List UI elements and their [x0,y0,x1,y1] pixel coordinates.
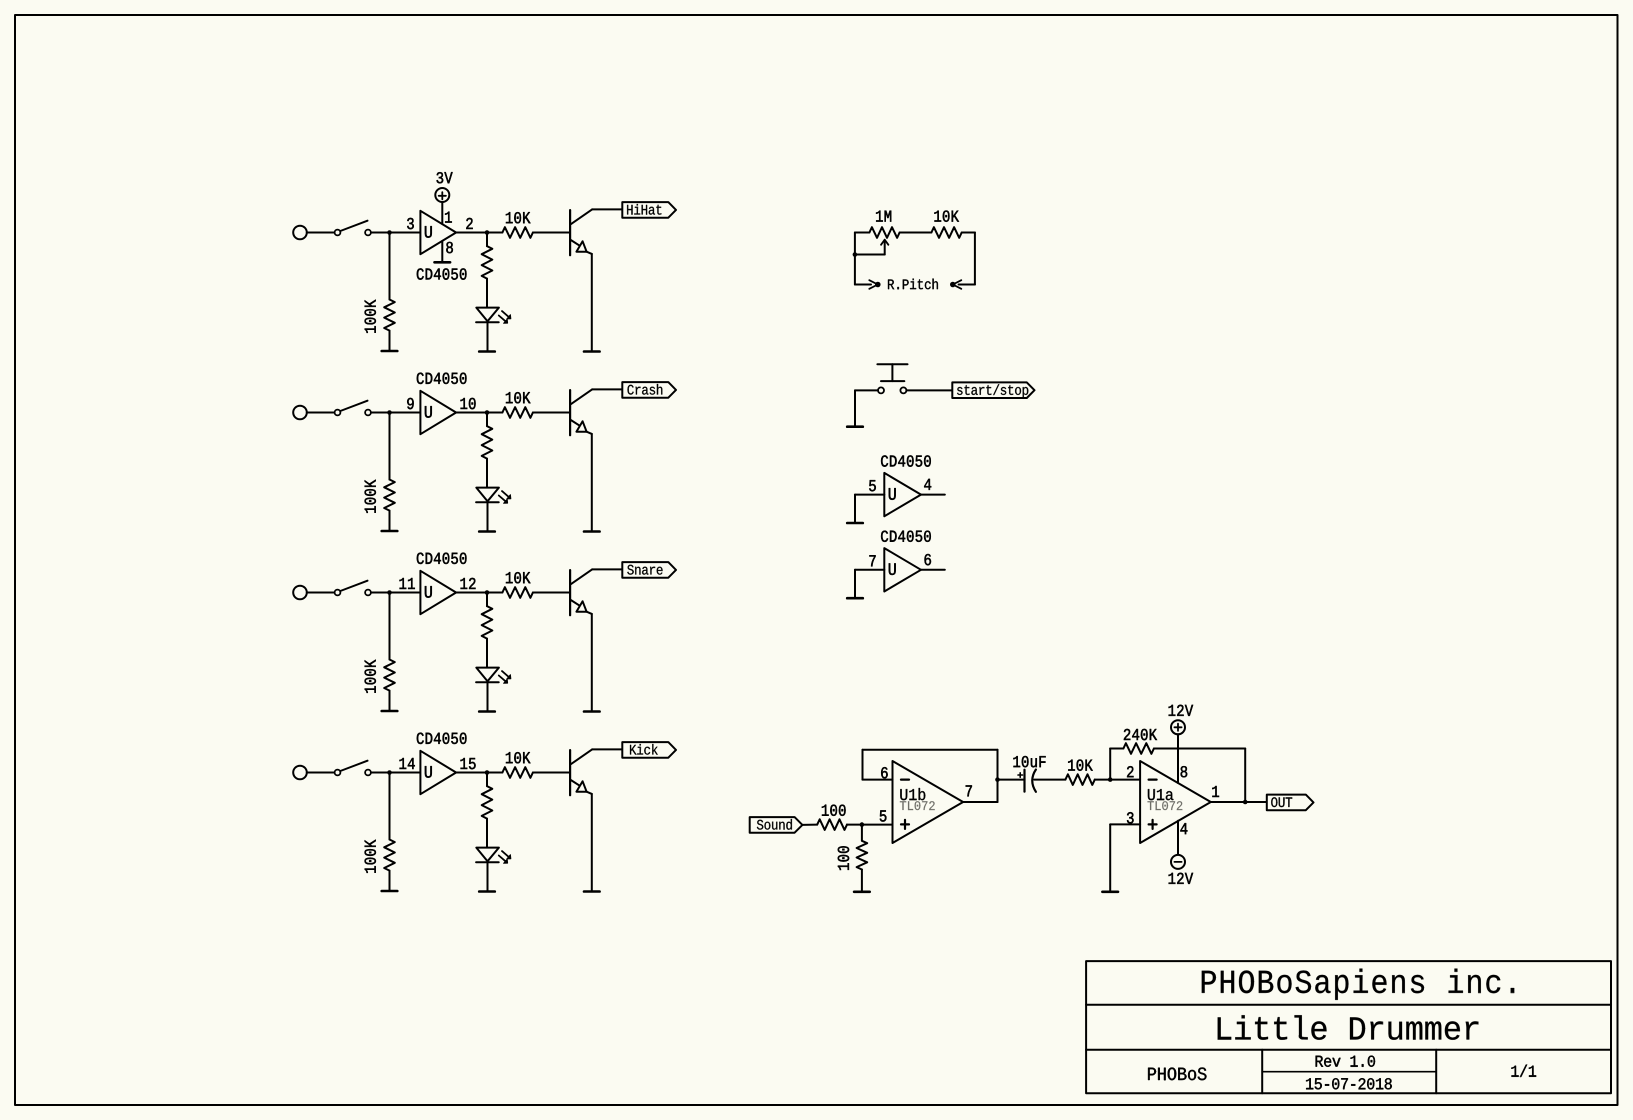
power supply +12V [1169,705,1194,783]
op-amp U1a TL072 [1140,761,1211,843]
junction node (HiHat input) [387,230,392,235]
wire output (spare buffer B) [921,569,945,571]
ground (pin 8) [435,241,453,262]
wire left leg (R.Pitch) [854,233,856,285]
ground (Crash pulldown) [382,530,398,533]
junction node (Kick buffer output) [485,770,490,775]
wire U1a output [1211,801,1267,803]
pin 8 (U1a V+) [1181,766,1188,777]
potentiometer 1M (R.Pitch) [855,211,900,255]
ground (LED, Kick) [479,890,495,893]
ground (emitter, Kick) [584,890,600,893]
wire input (spare buffer A) [855,495,884,523]
buffer U CD4050 (Snare) [417,553,467,615]
title text revision [1316,1056,1375,1067]
resistor 100 (to ground) [838,825,867,892]
pin 5 (U1b +) [880,810,887,821]
input connector (Crash trigger pad) [293,406,334,420]
resistor (LED series, Snare) [482,593,493,668]
resistor 100 (series, Sound) [817,805,892,830]
wire emitter to ground (Snare) [591,614,593,712]
junction node (Crash buffer output) [485,410,490,415]
ground (LED, HiHat) [479,350,495,353]
capacitor 10uF (polarized) [1013,756,1065,792]
wire emitter to ground (HiHat) [591,254,593,352]
LED (HiHat) [476,308,511,352]
power supply 3V (pin 1) [435,172,452,224]
wire input (spare buffer B) [855,570,884,598]
net flag HiHat [622,202,676,218]
junction node (Crash input) [387,410,392,415]
pin 3 (buffer input, HiHat) [407,218,414,229]
junction node (Snare input) [387,590,392,595]
wire buffer output (Kick) [456,772,502,774]
resistor (LED series, Crash) [482,413,493,488]
wire emitter to ground (Crash) [591,434,593,532]
pin 10 (buffer output, Crash) [461,398,476,409]
wire buffer output (Snare) [456,592,502,594]
pin 15 (buffer output, Kick) [461,758,476,769]
op-amp U1b TL072 [893,761,964,843]
wire pot to 10K [900,232,932,234]
ground (emitter, HiHat) [584,350,600,353]
net label R.Pitch [888,279,938,290]
pin 2 (buffer output, HiHat) [466,218,472,229]
wire U1b feedback loop [863,750,998,802]
ground (Kick pulldown) [382,890,398,893]
resistor 100K (Snare pulldown) [365,593,395,712]
ground (Snare pulldown) [382,710,398,713]
transistor Q NPN (Kick) [570,749,592,795]
junction node (U1b +input) [860,822,865,827]
resistor 10K (base, Crash) [502,392,569,418]
junction node (U1a -input) [1108,777,1113,782]
wire switch to buffer input (Kick) [371,772,421,774]
wire collector to Snare flag [592,568,622,570]
resistor 100K (Crash pulldown) [365,413,395,532]
pin 12 (buffer output, Snare) [461,578,476,589]
net arrow right (R.Pitch) [950,280,975,289]
pin 7 (U1b out) [966,785,972,796]
pin 1 (U1a out) [1212,786,1219,797]
junction node (pot wiper) [853,252,858,257]
title text date [1306,1078,1392,1089]
net flag Snare [622,562,676,578]
pin 14 (buffer input, Kick) [400,758,415,769]
ground (emitter, Snare) [584,710,600,713]
wire switch to buffer input (Snare) [371,592,421,594]
buffer U CD4050 (Crash) [417,373,467,435]
LED (Crash) [476,488,511,532]
ground (U1a +input) [1102,890,1118,893]
resistor (LED series, HiHat) [482,233,493,308]
ground (HiHat pulldown) [382,350,398,353]
ground (LED, Crash) [479,530,495,533]
wire button to ground [855,390,878,426]
resistor (LED series, Kick) [482,773,493,848]
switch SW (HiHat) [335,221,371,236]
net flag OUT [1267,795,1314,811]
input connector (HiHat trigger pad) [293,226,334,240]
junction node (Kick input) [387,770,392,775]
wire buffer output (Crash) [456,412,502,414]
wire U1a +input to ground [1110,824,1140,891]
resistor 100K (Kick pulldown) [365,773,395,892]
ground (spare buffer B) [847,597,863,600]
resistor 240K (U1a feedback) [1110,729,1245,802]
wire collector to Kick flag [592,748,622,750]
net flag start/stop [952,382,1034,398]
wire Sound to resistor [802,824,817,826]
buffer U CD4050 (spare buffer B, pins 7/6) [869,531,931,592]
net flag Sound [750,817,803,833]
pin 2 (U1a -) [1127,766,1133,777]
wire U1b out to capacitor [998,779,1025,781]
buffer U CD4050 (Kick) [417,733,467,795]
input connector (Snare trigger pad) [293,586,334,600]
transistor Q NPN (Snare) [570,569,592,615]
resistor 10K (base, HiHat) [502,212,569,238]
wire output (spare buffer A) [921,494,945,496]
wire collector to HiHat flag [592,208,622,210]
junction node (HiHat buffer output) [485,230,490,235]
pin 9 (buffer input, Crash) [407,398,414,409]
net arrow left (R.Pitch) [855,280,881,289]
LED (Kick) [476,848,511,892]
pin 4 (U1a V-) [1180,823,1187,834]
pin 11 (buffer input, Snare) [400,578,415,589]
wire switch to buffer input (HiHat) [371,232,421,234]
net flag Kick [622,742,676,758]
ground (LED, Snare) [479,710,495,713]
wire collector to Crash flag [592,388,622,390]
ground (spare buffer A) [847,522,863,525]
resistor 10K (base, Snare) [502,572,569,598]
title text company [1202,969,1514,1000]
transistor Q NPN (Crash) [570,389,592,435]
switch SW (Crash) [335,401,371,416]
net flag Crash [622,382,676,398]
resistor 100K (HiHat pulldown) [365,233,395,352]
resistor 10K (U1a input) [1065,760,1140,785]
pushbutton start/stop [877,364,907,393]
pin 6 (U1b -) [881,767,888,778]
wire button to flag [906,389,952,391]
switch SW (Snare) [335,581,371,596]
resistor 10K (base, Kick) [502,752,569,778]
transistor Q NPN (HiHat) [570,209,592,255]
junction node (U1a output) [1243,800,1248,805]
ground (100 resistor) [854,890,870,893]
junction node (Snare buffer output) [485,590,490,595]
title text sheet [1511,1065,1536,1077]
wire emitter to ground (Kick) [591,794,593,892]
wire buffer output (HiHat) [456,232,502,234]
title text author [1148,1068,1206,1081]
ground (emitter, Crash) [584,530,600,533]
buffer U CD4050 (spare buffer A, pins 5/4) [869,455,931,516]
power supply -12V [1169,821,1194,884]
switch SW (Kick) [335,761,371,776]
wire right leg (R.Pitch) [974,233,976,285]
LED (Snare) [476,668,511,712]
resistor 10K (R.Pitch) [931,211,975,238]
title block frame [1086,961,1611,1093]
title text project [1218,1015,1479,1040]
buffer U CD4050 (HiHat) [417,211,467,280]
ground (pushbutton) [847,425,863,428]
wire switch to buffer input (Crash) [371,412,421,414]
pin 3 (U1a +) [1127,812,1134,823]
input connector (Kick trigger pad) [293,766,334,780]
junction node (U1b out to cap) [995,777,1000,782]
